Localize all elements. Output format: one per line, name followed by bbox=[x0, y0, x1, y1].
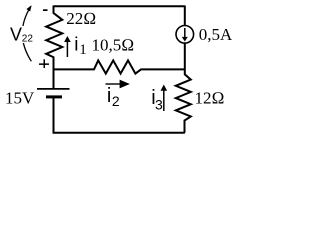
svg-text:3: 3 bbox=[155, 96, 163, 112]
svg-text:15V: 15V bbox=[5, 89, 35, 108]
svg-text:i: i bbox=[74, 35, 78, 56]
svg-text:1: 1 bbox=[79, 42, 87, 58]
svg-text:22: 22 bbox=[22, 34, 34, 45]
svg-text:0,5A: 0,5A bbox=[199, 25, 232, 44]
svg-text:22Ω: 22Ω bbox=[66, 9, 96, 28]
svg-text:i: i bbox=[107, 85, 111, 107]
svg-text:10,5Ω: 10,5Ω bbox=[92, 36, 135, 55]
svg-text:2: 2 bbox=[112, 93, 120, 109]
svg-text:12Ω: 12Ω bbox=[195, 89, 225, 108]
svg-text:V: V bbox=[10, 25, 22, 45]
